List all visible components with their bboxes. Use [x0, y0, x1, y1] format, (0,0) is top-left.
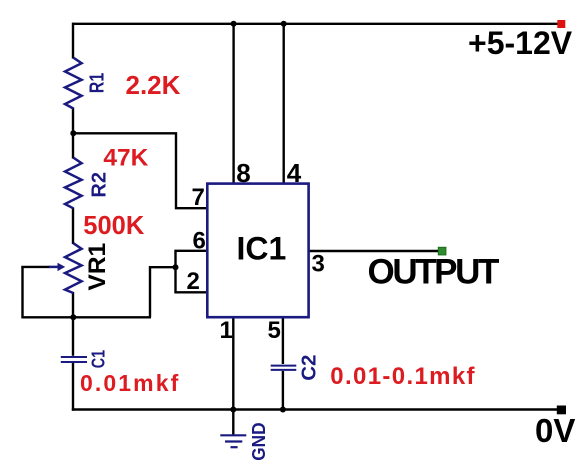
svg-text:GND: GND	[248, 422, 269, 460]
svg-text:C2: C2	[297, 355, 320, 381]
svg-text:2.2K: 2.2K	[126, 70, 181, 100]
svg-text:3: 3	[312, 250, 325, 277]
svg-text:OUTPUT: OUTPUT	[368, 253, 500, 292]
svg-text:6: 6	[193, 228, 206, 255]
svg-text:+5-12V: +5-12V	[468, 25, 573, 61]
svg-text:C1: C1	[88, 350, 109, 368]
svg-text:0V: 0V	[535, 412, 575, 449]
svg-text:4: 4	[287, 158, 302, 188]
svg-text:0.01mkf: 0.01mkf	[80, 370, 180, 396]
svg-text:8: 8	[236, 158, 250, 188]
svg-text:R2: R2	[89, 172, 111, 198]
svg-text:7: 7	[192, 184, 205, 211]
svg-text:5: 5	[268, 317, 281, 344]
svg-text:R1: R1	[86, 73, 108, 93]
svg-text:VR1: VR1	[84, 243, 111, 291]
svg-text:47K: 47K	[103, 144, 148, 171]
svg-text:1: 1	[220, 317, 233, 344]
svg-text:0.01-0.1mkf: 0.01-0.1mkf	[330, 363, 476, 390]
svg-text:2: 2	[187, 268, 200, 295]
svg-text:IC1: IC1	[237, 231, 287, 267]
svg-text:500K: 500K	[83, 212, 145, 240]
